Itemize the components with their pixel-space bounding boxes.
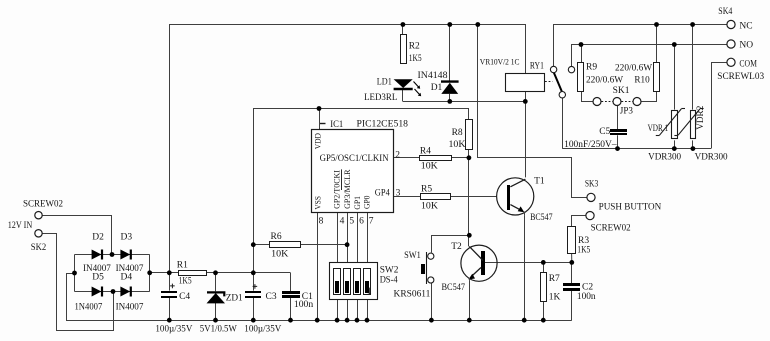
label NC [739, 22, 752, 32]
wire R9 to SK1 pin1 [582, 92, 594, 102]
wire VDR1 top lead [674, 44, 676, 110]
svg-text:SW2: SW2 [380, 265, 399, 275]
svg-text:VDR2: VDR2 [696, 105, 706, 129]
wire COM drop [712, 63, 728, 149]
svg-text:IN4148: IN4148 [418, 71, 448, 81]
svg-text:R3: R3 [578, 236, 589, 246]
svg-text:VR10V/2 1C: VR10V/2 1C [480, 58, 520, 67]
svg-text:1N4007: 1N4007 [75, 303, 103, 313]
label VDR300 a [648, 152, 681, 162]
junction bridge plus [147, 270, 152, 275]
wire IC pin2 to R4 [393, 157, 419, 159]
varistor VDR2 [674, 109, 703, 139]
label JP3 [620, 106, 633, 116]
label D1 [431, 83, 443, 93]
wire SK1 pin2 to C5 [617, 106, 619, 130]
resistor R3 [568, 227, 576, 254]
wire C1 top lead [290, 273, 292, 292]
junction bridge AC1 [110, 252, 115, 257]
wire ZD1 bottom lead [215, 303, 217, 320]
svg-text:VDR 1: VDR 1 [648, 124, 669, 134]
label IN4007 d [116, 303, 144, 313]
svg-text:SK3: SK3 [585, 180, 598, 190]
label 220/0.6W (R9) [586, 76, 623, 86]
junction SW1/T2 collector [467, 233, 472, 238]
pin number 8 [319, 216, 324, 226]
svg-text:JP3: JP3 [620, 106, 633, 116]
label 100u/35V (C3) [244, 325, 281, 335]
IC1 label GP3/MCLR [342, 169, 353, 209]
svg-text:BC547: BC547 [530, 213, 553, 223]
label D4 [121, 272, 133, 282]
label COM [739, 60, 757, 70]
junction gnd SW2d [365, 318, 370, 323]
wire relay coil feed [525, 25, 527, 74]
wire SW2 leg4 [367, 300, 369, 320]
IC1 label GP1 [352, 196, 362, 210]
label C4 [179, 292, 190, 302]
svg-text:T1: T1 [534, 177, 545, 187]
IC1 pin 3 stub label [396, 188, 401, 198]
svg-text:D5: D5 [92, 272, 104, 282]
resistor R1 [179, 271, 207, 276]
svg-text:SCREW02: SCREW02 [591, 224, 631, 234]
relay contact circle NC side [550, 66, 556, 72]
label KRS0611 [394, 290, 431, 300]
push button SW1 [421, 252, 434, 284]
resistor R2 [401, 35, 407, 64]
label 5V1/0.5W [200, 325, 237, 335]
wire VDR2 top lead [692, 25, 694, 110]
terminal SK4 NO [727, 40, 735, 48]
svg-text:R8: R8 [452, 128, 463, 138]
svg-text:6: 6 [359, 216, 364, 226]
label 10K (R8) [449, 140, 466, 150]
IC1 label GP2/T0CKI [331, 170, 341, 209]
wire T2 collector riser [468, 158, 470, 247]
label SCREWL03 [717, 72, 764, 82]
svg-text:IN4007: IN4007 [83, 264, 111, 274]
label 10K (R6) [271, 249, 288, 259]
svg-text:GP3/MCLR: GP3/MCLR [342, 169, 352, 209]
relay RY1 lever [554, 73, 562, 92]
resistor R6 [270, 242, 301, 248]
label 100n (C2) [577, 292, 596, 302]
transistor T2 [461, 245, 497, 281]
svg-text:KRS0611: KRS0611 [394, 290, 431, 300]
diode D2 [92, 250, 102, 260]
junction R3/C2 [569, 260, 574, 265]
junction NO VDR1 [672, 42, 677, 47]
terminal SK3 pin1 [587, 193, 595, 201]
resistor R4 [420, 156, 452, 161]
label RY1 [530, 61, 544, 71]
svg-text:PUSH BUTTON: PUSH BUTTON [599, 202, 662, 212]
wire SCREW02 to bridge AC1 [43, 216, 112, 255]
diode D5 [92, 287, 102, 297]
diode D4 [120, 287, 130, 297]
svg-text:D3: D3 [121, 233, 133, 243]
svg-text:SK1: SK1 [613, 86, 630, 96]
zener diode ZD1 [207, 292, 226, 303]
relay RY1 coil box [506, 74, 545, 92]
wire T2 base line [485, 262, 572, 264]
svg-text:IN4007: IN4007 [116, 264, 144, 274]
label IN4007 b [116, 264, 144, 274]
label 10K (R5) [421, 202, 438, 212]
wire SK2 to bridge AC2 [43, 234, 114, 331]
junction R4/R8 [467, 155, 472, 160]
wire T2 emitter drop [469, 281, 471, 320]
label SW2 [380, 265, 399, 275]
junction COM VDR2 [691, 146, 696, 151]
svg-text:LED3RL: LED3RL [364, 93, 397, 103]
svg-text:SK2: SK2 [31, 243, 47, 253]
svg-text:SK4: SK4 [718, 7, 732, 17]
wire R6 left lead [253, 244, 269, 246]
wire ZD1 top lead [215, 273, 217, 291]
wire 5V riser and VDD line to R8 [254, 109, 469, 273]
svg-text:VDR300: VDR300 [648, 152, 681, 162]
svg-text:100n: 100n [577, 292, 596, 302]
wire NO line [572, 45, 728, 67]
svg-text:R2: R2 [409, 42, 420, 52]
junction VDD [317, 106, 322, 111]
junction R6/pin5 [345, 242, 350, 247]
svg-text:7: 7 [369, 216, 374, 226]
wire lever to COM [562, 98, 564, 149]
junction gnd T2 [467, 318, 472, 323]
svg-text:C5: C5 [599, 127, 610, 137]
junction D1 top [447, 22, 452, 27]
DIP switch SW2 [330, 263, 378, 300]
svg-text:R7: R7 [549, 274, 560, 284]
wire R4 to node [452, 157, 469, 159]
label LD1 [377, 78, 392, 88]
pin number 5 [349, 216, 354, 226]
wire ground rail [66, 320, 572, 322]
svg-text:220/0.6W: 220/0.6W [615, 64, 652, 74]
junction gnd R7 [541, 318, 546, 323]
wire C3 bottom lead [253, 298, 255, 320]
wire relay coil bottom lead [525, 91, 527, 101]
SK1 dashed link a [601, 101, 612, 103]
junction COM VDR1 [672, 146, 677, 151]
resistor R7 [541, 273, 547, 302]
pin number 6 [359, 216, 364, 226]
label PIC12CE518 [357, 120, 409, 130]
svg-text:GP5/OSC1/CLKIN: GP5/OSC1/CLKIN [320, 154, 389, 164]
wire R2 top lead [402, 25, 404, 35]
label SW1 [404, 251, 421, 261]
junction D1 anode [447, 99, 452, 104]
LED LD1 [394, 79, 422, 96]
wire +12V left riser [169, 25, 171, 273]
resistor R8 [466, 120, 473, 150]
junction gnd SW2a [335, 318, 340, 323]
IC1 label GP0 [362, 195, 372, 209]
wire R7 top lead [543, 262, 545, 272]
junction gnd C3 [251, 318, 256, 323]
label SK2 [31, 243, 47, 253]
relay contact circle COM pole [559, 92, 565, 98]
junction COM C5 [615, 146, 620, 151]
label C2 [582, 282, 593, 292]
svg-text:5V1/0.5W: 5V1/0.5W [200, 325, 237, 335]
wire IC pin4 drop [337, 212, 339, 263]
svg-text:10K: 10K [421, 162, 438, 172]
svg-text:C3: C3 [266, 292, 277, 302]
svg-text:GP2/T0CKI: GP2/T0CKI [331, 170, 341, 209]
IC1 label GP5/OSC1/CLKIN [320, 154, 389, 164]
resistor R10 [654, 63, 660, 92]
label NO [739, 40, 753, 50]
svg-text:SCREW02: SCREW02 [23, 200, 63, 210]
label D5 [92, 272, 104, 282]
wire R10 to SK1 pin3 [642, 92, 657, 102]
svg-text:100µ/35V: 100µ/35V [155, 325, 192, 335]
terminal SK2 pin2 [35, 230, 42, 237]
svg-text:R1: R1 [177, 260, 188, 270]
header SK1 pin3 [633, 98, 641, 106]
wire SW2 leg2 [347, 300, 349, 320]
wire NC line [554, 25, 728, 67]
svg-text:1K5: 1K5 [409, 54, 422, 64]
junction ZD1 top [213, 270, 218, 275]
label LED3RL [364, 93, 397, 103]
label 220/0.6W (R10) [615, 64, 652, 74]
wire D1 cathode lead [449, 25, 451, 82]
svg-text:C2: C2 [582, 282, 593, 292]
pin number 7 [369, 216, 374, 226]
label C3 [266, 292, 277, 302]
transistor T1 [497, 178, 534, 216]
terminal SK3 pin2 [586, 212, 594, 220]
junction gnd VSS [315, 318, 320, 323]
junction C4 top [167, 270, 172, 275]
wire C3 top lead [253, 273, 255, 291]
svg-text:SW1: SW1 [404, 251, 421, 261]
wire T1 collector [525, 101, 527, 177]
label C5 [599, 127, 610, 137]
label T1 [534, 177, 545, 187]
svg-text:4: 4 [340, 216, 345, 226]
svg-text:LD1: LD1 [377, 78, 392, 88]
label R4 [420, 146, 431, 156]
label VDR 1 [648, 124, 669, 134]
wire +12V to SK3 [478, 25, 587, 198]
IC1 label VDD [313, 133, 323, 149]
wire bridge top rail [75, 254, 150, 256]
SW2 marking 1 [367, 287, 372, 297]
svg-text:NO: NO [739, 40, 753, 50]
label 12V IN [8, 221, 33, 231]
svg-text:RY1: RY1 [530, 61, 544, 71]
junction gnd ZD1 [213, 318, 218, 323]
svg-text:PIC12CE518: PIC12CE518 [357, 120, 409, 130]
pin number 4 [340, 216, 345, 226]
diode D1 [441, 82, 459, 94]
junction NO R9 [579, 42, 584, 47]
svg-text:IC1: IC1 [330, 120, 343, 130]
svg-text:R4: R4 [420, 146, 431, 156]
svg-text:ZD1: ZD1 [226, 293, 243, 303]
svg-text:GP4: GP4 [375, 188, 390, 198]
junction bridge minus [72, 271, 77, 276]
label R5 [421, 184, 432, 194]
wire R3 bottom lead [571, 254, 573, 263]
label 100n (C1) [294, 300, 314, 310]
svg-text:GP0: GP0 [362, 195, 372, 209]
junction gnd SW1 [429, 318, 434, 323]
svg-text:R6: R6 [271, 232, 282, 242]
label BC547 (T1) [530, 213, 553, 223]
wire COM rail [562, 148, 711, 150]
label BC547 (T2) [442, 283, 466, 293]
label ZD1 [226, 293, 243, 303]
relay RY1 actuator dashes [545, 81, 553, 83]
svg-text:D4: D4 [121, 272, 133, 282]
wire R5 to T1 base [450, 196, 497, 198]
label 1K (R7) [549, 292, 561, 302]
IC1 pin 2 stub label [395, 151, 400, 161]
svg-text:IN4007: IN4007 [116, 303, 144, 313]
label D3 [121, 233, 133, 243]
svg-text:1K5: 1K5 [179, 276, 192, 286]
label D2 [92, 233, 104, 243]
label R2 [409, 42, 420, 52]
wire C5 bottom lead [617, 135, 619, 148]
svg-text:SCREWL03: SCREWL03 [717, 72, 764, 82]
label DS-4 [380, 275, 398, 285]
wire SW2 leg1 [337, 300, 339, 320]
svg-text:VSS: VSS [312, 196, 322, 210]
label VR10V/2 1C [480, 58, 520, 67]
capacitor C3 [245, 284, 261, 298]
wire R9 top lead [581, 44, 583, 63]
wire SW1 to T2 collector [432, 236, 470, 253]
svg-text:1K: 1K [549, 292, 561, 302]
header SK1 pin1 [593, 98, 601, 106]
wire VDR2 bottom lead [692, 140, 694, 148]
label T2 [451, 242, 462, 252]
svg-text:2: 2 [395, 151, 400, 161]
label SCREW02 (SK3) [591, 224, 631, 234]
wire D1 anode lead [449, 94, 451, 102]
svg-text:T2: T2 [451, 242, 462, 252]
svg-text:D1: D1 [431, 83, 443, 93]
junction R2 top [401, 22, 406, 27]
label 1K5 (R2) [409, 54, 422, 64]
wire R7 bottom lead [543, 302, 545, 321]
junction gnd SW2b [345, 318, 350, 323]
label R8 [452, 128, 463, 138]
SK1 dashed link b [621, 101, 632, 103]
svg-text:1K5: 1K5 [577, 246, 590, 256]
wire T1 emitter drop [524, 216, 526, 321]
svg-text:R10: R10 [634, 76, 650, 86]
resistor R9 [578, 63, 584, 92]
wire R8 bottom lead [468, 149, 470, 157]
wire +12V top rail [169, 24, 526, 26]
svg-text:5: 5 [349, 216, 354, 226]
header SK1 pin2 [613, 98, 621, 106]
svg-text:10K: 10K [271, 249, 288, 259]
wire SW2 leg3 [357, 300, 359, 320]
terminal SK2 pin1 [35, 212, 42, 219]
IC1 label VSS [312, 196, 322, 210]
op-amp-style IC box U1/IC1 [312, 130, 394, 213]
wire SK3 to R3 [572, 216, 586, 227]
svg-text:D2: D2 [92, 233, 104, 243]
capacitor C1 [282, 291, 300, 298]
svg-text:10K: 10K [421, 202, 438, 212]
label PUSH BUTTON [599, 202, 662, 212]
wire bridge left side [74, 255, 76, 292]
label C1 [302, 292, 313, 302]
junction T2 base/R7 [541, 260, 546, 265]
svg-text:10K: 10K [449, 140, 466, 150]
capacitor C4 [161, 284, 177, 298]
label VDR300 b [695, 152, 728, 162]
wire node K (LED/D1/relay/T1 collector) [403, 101, 526, 103]
relay contact circle NO side [568, 66, 574, 72]
svg-text:R9: R9 [586, 63, 597, 73]
label VDR2 (rotated) [696, 105, 706, 129]
junction C3 top [251, 270, 256, 275]
svg-text:100n: 100n [294, 300, 314, 310]
junction 12V tap [475, 22, 480, 27]
svg-text:GP1: GP1 [352, 196, 362, 210]
junction NC R10 [654, 22, 659, 27]
wire bridge right side [149, 255, 151, 292]
label IN4148 [418, 71, 448, 81]
label R1 [177, 260, 188, 270]
junction gnd C1 [288, 318, 293, 323]
terminal SK4 COM [727, 58, 735, 66]
svg-text:VDD: VDD [313, 133, 323, 149]
resistor R5 [421, 194, 451, 200]
terminal SK4 NC [727, 20, 735, 28]
wire ground left riser [67, 274, 75, 321]
wire C1 bottom lead [290, 298, 292, 320]
svg-text:1: 1 [367, 287, 372, 297]
wire VDR1 bottom lead [674, 140, 676, 148]
wire IC pin3 to R5 [393, 196, 421, 198]
label IC1 [330, 120, 343, 130]
label SCREW02 (SK2) [23, 200, 63, 210]
junction gnd T1 [522, 318, 527, 323]
diode D3 [120, 250, 130, 260]
wire R10 top lead [656, 25, 658, 63]
capacitor C5 [610, 129, 627, 135]
wire IC pin6 drop [357, 212, 359, 263]
IC1 pin1 mark [320, 123, 326, 125]
capacitor C2 [563, 283, 580, 291]
wire bridge bottom rail [75, 291, 150, 293]
wire LED bottom lead [402, 90, 404, 102]
label R10 [634, 76, 650, 86]
label 1K5 (R3) [577, 246, 590, 256]
label 100u/35V (C4) [155, 325, 192, 335]
svg-text:BC547: BC547 [442, 283, 466, 293]
svg-text:220/0.6W: 220/0.6W [586, 76, 623, 86]
svg-text:COM: COM [739, 60, 757, 70]
svg-text:DS-4: DS-4 [380, 275, 398, 285]
label SK4 [718, 7, 732, 17]
label IN4007 c [75, 303, 103, 313]
wire bridge to R1 [150, 272, 178, 274]
